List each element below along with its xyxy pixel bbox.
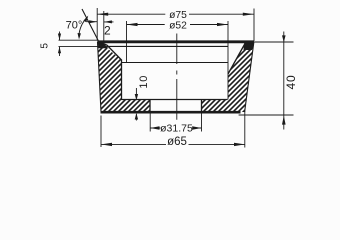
right wall outer edge <box>245 43 254 113</box>
arrowheads ø75 <box>97 13 108 16</box>
centerline <box>176 34 178 120</box>
svg-text:ø52: ø52 <box>169 20 187 31</box>
left wall outer edge <box>98 42 102 112</box>
dim ø52 right ext line + wall inner vertical <box>227 21 229 100</box>
arrowheads dim 10 <box>135 94 138 101</box>
dim 2 arrows lines <box>87 21 114 23</box>
arrowheads dim 40 <box>282 35 286 42</box>
arrowheads ø65 <box>101 143 112 146</box>
left wall inner vertical (cavity wall) <box>121 60 123 101</box>
dim ø31.75 right ext <box>201 112 203 132</box>
70deg cone extension line <box>82 9 100 44</box>
dim ø31.75 line <box>150 127 201 129</box>
dim ø75 line <box>97 13 254 15</box>
arrowheads dim 5 <box>58 34 61 41</box>
dim 5 upper ext line <box>59 39 98 41</box>
dim 40 top ext line <box>251 41 294 43</box>
dim ø31.75 left ext <box>149 114 151 132</box>
svg-text:5: 5 <box>40 43 51 49</box>
dim ø75 right ext line <box>253 9 255 42</box>
right rim solid wedge <box>244 42 255 51</box>
dim 40 line <box>283 32 285 130</box>
arrowheads dim 2 <box>89 20 97 23</box>
70deg arc <box>79 17 88 37</box>
dim ø65 line <box>101 143 245 145</box>
dim ø65 left ext <box>100 116 102 148</box>
left rim solid wedge <box>98 42 109 49</box>
recess right wall <box>201 100 203 113</box>
arrowheads ø31.75 <box>150 126 159 130</box>
dim 5 lower ext line <box>59 46 101 48</box>
svg-text:40: 40 <box>284 75 298 90</box>
bottom face <box>101 111 241 114</box>
engineering drawing: cup wheel cross-section <box>0 0 340 160</box>
dim ø52 left ext line <box>126 21 128 63</box>
svg-text:ø31.75: ø31.75 <box>160 122 193 134</box>
svg-text:70°: 70° <box>66 20 83 32</box>
left wall inner cone edge <box>101 43 122 61</box>
dim 5 arrow stems <box>59 32 61 57</box>
dim 40 bottom ext line <box>239 114 294 116</box>
dim ø65 right ext <box>244 111 246 148</box>
recess left wall <box>149 100 151 113</box>
arrowheads 70deg <box>78 33 81 40</box>
svg-text:2: 2 <box>104 23 111 37</box>
cavity shoulder circle edge <box>122 62 228 64</box>
dim ø52 line <box>127 24 229 26</box>
svg-text:10: 10 <box>138 75 150 89</box>
left wall section hatch <box>98 43 151 112</box>
cavity circle edge at depth 5 <box>107 45 229 47</box>
cavity floor <box>122 99 228 101</box>
dim 2 right ext line <box>103 11 105 41</box>
right wall inner cone edge <box>228 43 245 74</box>
dim 10 upper arrow stem <box>135 88 137 121</box>
dim ø75 left ext line <box>96 8 98 41</box>
svg-text:ø65: ø65 <box>167 136 187 148</box>
arrowheads ø52 <box>127 23 138 26</box>
top face <box>97 40 254 43</box>
right wall section hatch <box>202 43 254 112</box>
